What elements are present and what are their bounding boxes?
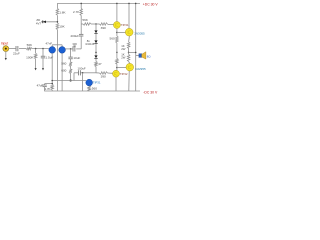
wire Q6 collector to rail [115,77,117,91]
svg-text:Input: Input [1,42,8,46]
node input bias [35,48,37,50]
resistor R9 390 [100,72,108,75]
wire output node up [128,52,130,54]
capacitor C6 200uF [79,34,83,36]
wire Q4 emitter [128,36,131,42]
wire Q4 collector to rail [128,3,130,28]
transistor Q4 output [125,28,133,36]
node output cross [95,52,97,54]
wire -V bottom rail [44,90,140,92]
node emitter network [51,83,53,85]
transistor Q2 [59,47,66,54]
wire Q7 base [117,67,126,69]
diode D3 1N4148 [94,40,97,43]
resistor R14 560 [116,36,119,43]
wire cap branch right [81,72,96,74]
svg-text:2.7K: 2.7K [45,87,51,91]
wire C5 drop [70,49,72,57]
wire bias drop [35,49,37,54]
svg-text:10K: 10K [59,24,65,28]
capacitor C5 10uF [68,57,72,59]
wire jack ground stub [5,52,7,60]
wire Q7 collector to rail [128,71,130,91]
wire speaker stub [136,55,139,57]
svg-text:2.7K: 2.7K [73,10,80,14]
transistor Q1 [49,47,56,54]
wire D2-D3 [95,33,97,40]
transistor Q5 [86,79,93,86]
svg-text:200uF: 200uF [70,34,79,38]
wire feedback row [52,80,86,82]
svg-text:4V7: 4V7 [36,22,42,26]
resistor R15 [116,59,119,65]
svg-text:2W: 2W [121,47,126,51]
svg-text:100uF: 100uF [78,66,86,70]
wire R13 to rail [51,90,53,91]
wire R5 top stub [80,3,82,8]
capacitor C2 1.5uF [41,56,45,58]
svg-text:8Ω: 8Ω [147,54,151,58]
resistor R2 10K [56,23,59,30]
wire output to speaker col [129,51,136,53]
svg-text:-DC 30 V: -DC 30 V [143,91,158,95]
node rail right [135,3,137,5]
node rail R5 [80,3,82,5]
wire R10-R11 [70,66,72,69]
wire R15 to Q6 [116,64,118,70]
wire R6 to R7 [91,23,100,25]
node R1-R2 junction [57,21,59,23]
node rail Q4 [128,3,130,5]
ground input [5,58,7,60]
wire Q3 emitter down [116,28,118,36]
transistor Q3 driver [113,22,120,29]
wire C5-R10 [70,59,72,62]
resistor R10 560 [69,62,72,67]
resistor R3 56K [26,47,32,50]
wire R1-R2 [56,15,58,23]
svg-text:390: 390 [101,74,106,78]
wire column to C6 [80,24,82,34]
node Q1 emitter tap [51,80,53,82]
wire Q3 collector to rail [116,3,118,21]
wire R8 down corner [95,67,97,73]
svg-text:1.8K: 1.8K [59,10,66,14]
resistor R17 1K [127,54,130,61]
wire R14 to output [116,43,118,52]
wire R17 to Q7 [129,62,130,64]
svg-text:22uF: 22uF [13,51,20,55]
capacitor C1 22uF [16,46,18,51]
wire Q2 emitter down [61,53,63,91]
zener D1 ZD4V7 [43,20,46,23]
svg-text:100K: 100K [26,55,34,59]
resistor R8 47 [95,61,98,66]
wire R6 left [81,23,83,25]
svg-text:1N4148: 1N4148 [85,42,95,46]
svg-text:10uF: 10uF [73,56,80,60]
wire jack to C1 [9,48,16,50]
wire C2 drop [42,49,44,56]
node Q4 base tap [116,32,118,34]
resistor R7 390 [100,23,108,26]
resistor R12 560 [88,86,91,91]
node C7 gnd branch [82,72,84,74]
wire R9 left [96,72,100,74]
svg-text:+DC 30 V: +DC 30 V [143,2,159,6]
wire C8 to rail [44,87,46,91]
wire R3 to Q1 base [32,48,49,50]
node output driver top [116,52,118,54]
svg-text:56K: 56K [82,18,88,22]
wire C2 to gnd [42,58,44,69]
wire C8 drop [44,84,46,85]
svg-text:390: 390 [101,26,106,30]
input jack J1 [3,46,9,52]
node speaker col [135,52,137,54]
wire tie stub Q2 [61,45,63,47]
diode D2 1N4148 [94,30,97,33]
wire Q2 collector right [65,48,72,50]
node input cap branch [42,48,44,50]
resistor R4 100K [34,53,37,59]
wire diode string upper [95,24,97,30]
wire R2 down to pair [56,30,58,45]
wire right column [135,3,137,91]
capacitor C8 47uF [42,85,46,87]
svg-text:560: 560 [110,37,115,41]
svg-text:47uF: 47uF [37,84,44,88]
wire R16 to output node [128,48,130,52]
svg-text:47nF: 47nF [46,42,53,46]
wire R4 to gnd [35,59,37,70]
svg-text:TIP32: TIP32 [120,72,128,76]
diode D4 1N4148 [94,55,97,58]
capacitor C4 330pF [73,46,75,51]
node diode string top [95,23,97,25]
svg-text:2W: 2W [121,56,126,60]
wire branch corner down [73,73,75,81]
node Q7 base tap [116,67,118,69]
speaker LS1 [139,52,146,59]
svg-text:TIP31: TIP31 [121,23,129,27]
transistor Q7 output [126,63,134,71]
wire C4 to column [76,48,81,50]
wire R9 to Q6 base [108,72,113,74]
svg-text:600: 600 [61,69,66,73]
resistor R1 1.8K [56,8,59,15]
wire R5 down [80,15,82,24]
capacitor C7 100uF [78,70,80,75]
wire D4-R8 [95,58,97,61]
resistor R16 1K [127,42,130,49]
resistor R5 2.7K [80,8,83,15]
node rail Q3 [116,3,118,5]
wire cap branch left [74,72,78,74]
node output [128,52,130,54]
svg-text:56K: 56K [27,43,33,47]
wire output to Q6 [116,52,118,58]
wire gnd branch drop [82,73,84,91]
wire tie stub Q1 [51,45,53,47]
wire zener to node [41,21,57,23]
wire D3-D4 [95,43,97,55]
svg-text:47: 47 [98,62,102,66]
svg-text:MJ2955: MJ2955 [135,67,146,71]
wire Q1 emitter down [51,53,53,84]
node feedback join [70,79,72,81]
wire emitter node [45,83,53,85]
wire C1 to R3 [19,48,26,50]
svg-text:560: 560 [61,62,66,66]
wire center column down [56,45,58,91]
wire R11 down [70,73,72,80]
resistor R6 56K [83,23,91,26]
wire Q4 base [117,31,126,33]
node Q2-C5 branch [70,48,72,50]
ground R4 [35,68,37,70]
resistor R11 600 [69,69,72,74]
svg-text:pF: pF [73,44,76,48]
resistor R13 2.7K [51,84,54,90]
ground C2 [42,68,44,70]
wire R1 top stub [56,3,58,8]
transistor Q6 driver [113,70,120,77]
svg-text:TIP31: TIP31 [93,81,101,85]
wire pair tie [52,44,62,46]
wire C6 down [80,36,82,49]
wire +V top rail [57,2,140,4]
svg-text:560: 560 [92,87,97,91]
wire R7 to Q3 base [108,23,114,25]
